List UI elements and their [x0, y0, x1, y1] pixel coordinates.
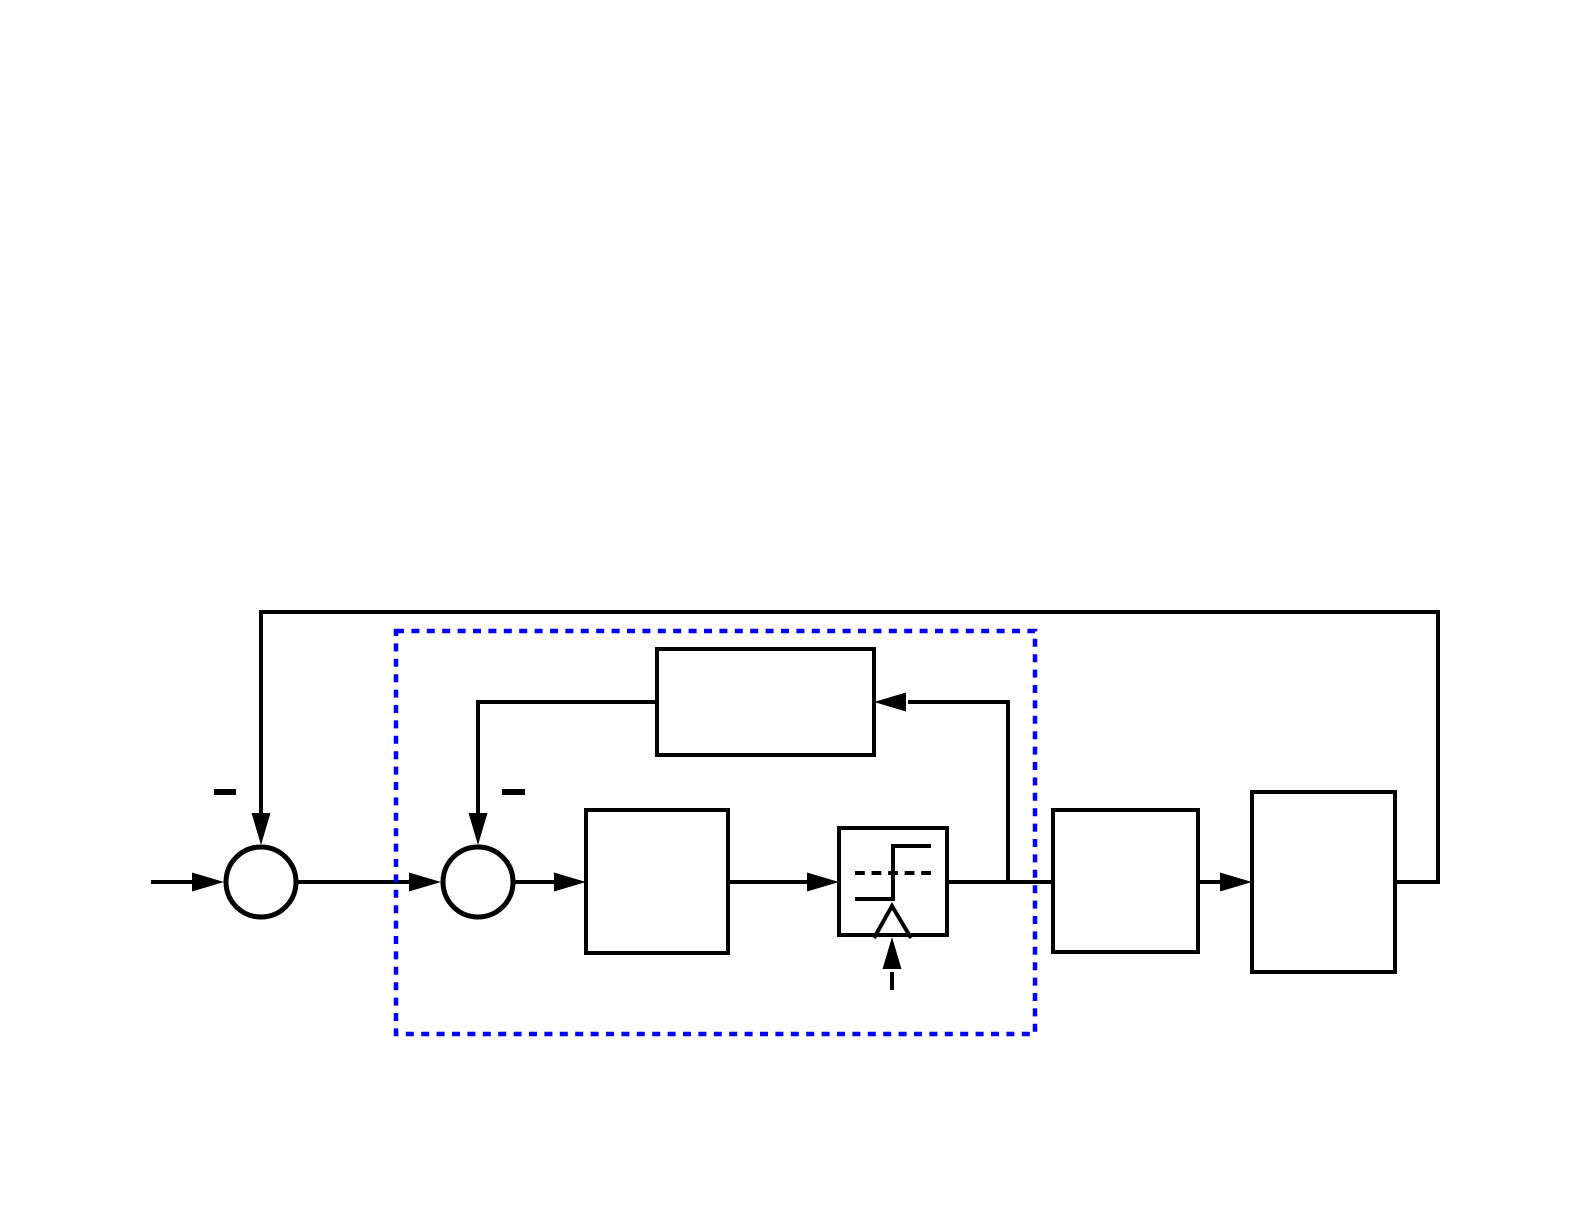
wire: block G2 output to plant P [1198, 880, 1226, 884]
wire: input line into summing junction S1 [151, 880, 198, 884]
arrowhead: arrow into block G1 [554, 873, 586, 892]
quantizer Q: step (sign) curve [855, 846, 931, 899]
arrowhead: arrow into S2 [409, 873, 441, 892]
wire: inner feedback from block H down into S2 [478, 702, 657, 819]
quantizer Q: dotted threshold line [855, 871, 931, 875]
wire: outer feedback path (plant output up, across top, down into S1) [261, 612, 1438, 882]
summing junction S1 [226, 847, 296, 917]
block G1: controller box [586, 810, 728, 953]
dashed enclosure: inner loop boundary [396, 631, 1035, 1034]
block G2: box after dashed enclosure [1053, 810, 1198, 952]
arrowhead: inner feedback arrow into top of S2 [469, 813, 488, 845]
label: minus sign at S2 [502, 789, 525, 795]
wire: vertical line into bottom of quantizer Q [890, 972, 894, 990]
block H: inner feedback filter box [657, 649, 874, 755]
quantizer Q: triangle (clock) symbol at bottom [874, 906, 911, 938]
arrowhead: outer feedback arrow into top of S1 [252, 813, 271, 845]
label: minus sign at S1 [214, 789, 236, 795]
wire: quantizer Q output to block G2 (through node at x=1008) [947, 880, 1053, 884]
arrowhead: input arrow into S1 [192, 873, 224, 892]
arrowhead: arrow up into bottom of quantizer Q [883, 937, 902, 969]
wire: S2 output to block G1 [513, 880, 560, 884]
plant P: rightmost box [1252, 792, 1395, 972]
arrowhead: arrow into plant P [1220, 873, 1252, 892]
arrowhead: arrow into right side of block H [874, 693, 906, 712]
wire: S1 output to summing junction S2 [296, 880, 415, 884]
summing junction S2 [443, 847, 513, 917]
wire: quantizer output node up and left to block H [908, 702, 1008, 882]
wire: block G1 output to quantizer Q [728, 880, 813, 884]
arrowhead: arrow into quantizer Q [807, 873, 839, 892]
quantizer Q: box [839, 828, 947, 935]
